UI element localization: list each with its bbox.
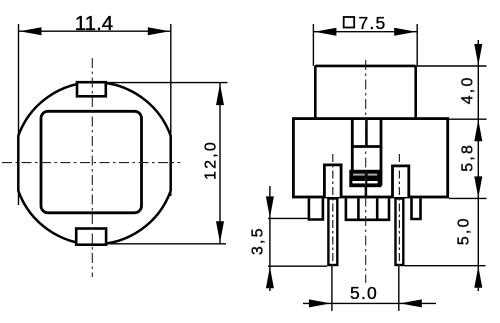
dimension 5.0 bottom line with outside arrows bbox=[303, 299, 436, 307]
dimension 11.4 line with arrows bbox=[19, 27, 171, 35]
svg-text:5.0: 5.0 bbox=[350, 283, 378, 303]
top view vertical centerline bbox=[91, 58, 93, 277]
side view center stub below stack bbox=[365, 187, 368, 198]
side view pin right bbox=[396, 199, 404, 266]
side view terminal block left bbox=[324, 165, 341, 197]
side view standoff left bbox=[309, 199, 323, 220]
top view keying tab lower bbox=[76, 229, 106, 245]
dimension 4,0 label bbox=[459, 75, 476, 104]
dimension 3,5 label bbox=[250, 226, 267, 255]
dimension 12,0 extension line top bbox=[107, 82, 228, 84]
side view pin left bbox=[328, 199, 337, 266]
dimension 11.4 label bbox=[75, 12, 113, 35]
arrow up at pin tip left bbox=[266, 267, 274, 289]
dimension 5,8 label bbox=[459, 143, 476, 172]
dimension 5,0 right label bbox=[456, 216, 473, 245]
dimension 5.0 bottom extension line left bbox=[331, 266, 333, 311]
side view plunger channel wall right bbox=[380, 120, 383, 186]
dimension 7.5 extension line left bbox=[312, 24, 314, 66]
svg-text:7.5: 7.5 bbox=[359, 13, 387, 33]
extension line body bottom to right bbox=[449, 197, 487, 199]
svg-text:5,0: 5,0 bbox=[456, 216, 473, 245]
dimension 11.4 extension line left bbox=[18, 24, 20, 205]
arrow up at pin bottom bbox=[474, 266, 482, 288]
svg-text:12,0: 12,0 bbox=[203, 140, 220, 180]
dimension 3,5 vertical line bbox=[269, 186, 271, 291]
pin left centerline bbox=[332, 154, 334, 266]
svg-text:11.4: 11.4 bbox=[75, 12, 113, 35]
svg-text:4,0: 4,0 bbox=[459, 75, 476, 104]
extension line body top to right bbox=[449, 118, 487, 120]
arrow down at body bottom bbox=[474, 176, 482, 198]
side view main body bbox=[293, 119, 447, 197]
dimension 3,5 extension line top bbox=[268, 217, 308, 219]
dimension 12,0 extension line bottom bbox=[108, 243, 227, 245]
top view keying tab upper bbox=[77, 82, 106, 96]
top view button square bbox=[41, 111, 142, 213]
top view body circle bbox=[18, 82, 170, 244]
svg-text:3,5: 3,5 bbox=[250, 226, 267, 255]
dimension 7.5 extension line right bbox=[416, 24, 418, 66]
side view terminal block right bbox=[393, 166, 409, 197]
side view vertical centerline bbox=[365, 60, 367, 283]
arrow down at button top bbox=[474, 44, 482, 66]
svg-text:5,8: 5,8 bbox=[459, 143, 476, 172]
side view contact stack block bbox=[349, 170, 381, 187]
dimension 5.0 bottom label bbox=[350, 283, 378, 303]
arrow up at body top bbox=[474, 120, 482, 142]
dimension 7.5 line with arrows bbox=[313, 28, 417, 36]
dimension 3,5 extension line bottom bbox=[268, 265, 327, 267]
arrow down at standoff bottom bbox=[266, 196, 274, 218]
side view center boss bbox=[346, 199, 389, 220]
dimension 11.4 extension line right bbox=[170, 24, 172, 196]
side view standoff right bbox=[412, 199, 421, 220]
dimension 12,0 line with arrows bbox=[216, 83, 224, 244]
top view horizontal centerline bbox=[2, 162, 180, 164]
extension line button top to right bbox=[417, 65, 487, 67]
dimension 12,0 label bbox=[203, 140, 220, 180]
pin right centerline bbox=[398, 154, 400, 266]
right dim column vertical line bbox=[477, 40, 479, 291]
dimension 5.0 bottom extension line right bbox=[398, 266, 400, 311]
side view plunger stem center bar bbox=[365, 120, 368, 147]
dimension square-7.5 label bbox=[344, 13, 387, 33]
side view plunger button bbox=[315, 66, 415, 120]
side view plunger channel wall left bbox=[351, 120, 354, 186]
extension line pin bottom to right bbox=[405, 265, 486, 267]
side view plunger shaft crossbar bbox=[351, 145, 382, 148]
